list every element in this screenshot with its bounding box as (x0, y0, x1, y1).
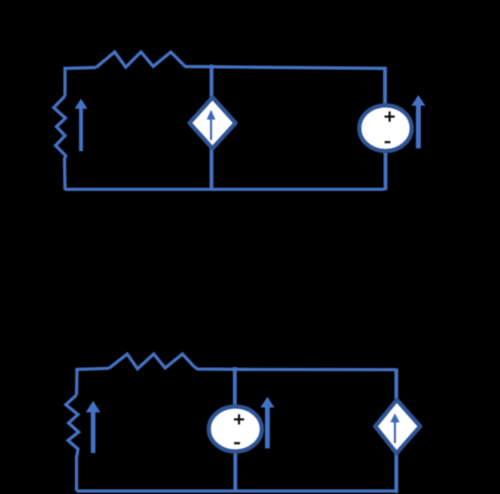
wire: bottom wire of top circuit (65, 188, 385, 191)
wire: top-left horizontal segment (bottom circuit) (77, 368, 109, 372)
arrow: current arrow beside R2 (75, 99, 88, 152)
resistor R3 (horizontal zigzag, bottom circuit) (109, 354, 194, 369)
wire: top-left horizontal segment (65, 68, 96, 71)
wire: top wire from R1 to top-right corner (slight slope) (183, 65, 385, 69)
wire: middle branch above voltage source (bottom circuit) (233, 367, 237, 408)
wire: right branch above diamond (bottom circuit) (394, 369, 398, 402)
arrow: current arrow beside R4 (86, 401, 101, 453)
wire: middle branch below voltage source (bottom circuit) (233, 451, 237, 493)
label: minus sign of V2 (234, 442, 240, 444)
wire: left branch lower segment (bottom circuit) (75, 456, 78, 491)
arrow: current arrow right of V1 (411, 95, 425, 148)
wire: top wire from R3 to top-right corner (bottom circuit) (194, 367, 396, 370)
arrow: current arrow right of V2 (260, 397, 274, 449)
wire: right branch below voltage source (384, 150, 388, 190)
dependent current source D1 (diamond, top circuit) (190, 97, 236, 148)
wire: right branch below diamond (bottom circuit) (394, 453, 398, 494)
wire: left branch upper segment (bottom circuit) (75, 368, 79, 395)
wire: bottom wire of bottom circuit (77, 489, 398, 492)
label: minus sign of V1 (385, 141, 391, 143)
label: plus sign of V1 (385, 112, 395, 122)
label: plus sign of V2 (234, 414, 244, 424)
wire: left branch upper segment (63, 67, 66, 96)
resistor R2 (vertical zigzag, left branch of top circuit) (54, 96, 66, 159)
resistor R4 (vertical zigzag, left branch of bottom circuit) (66, 395, 79, 458)
arrow inside D2 (390, 413, 399, 443)
arrow inside D1 (207, 110, 216, 140)
wire: left branch lower segment (63, 158, 67, 190)
wire: middle branch above diamond (210, 65, 214, 98)
wire: right branch above voltage source (383, 67, 387, 107)
voltage source V2 (circle, bottom circuit) (209, 407, 262, 452)
resistor R1 (horizontal zigzag, top wire of top circuit) (96, 52, 183, 68)
dependent current source D2 (diamond, bottom circuit) (375, 400, 420, 454)
wire: middle branch below diamond (210, 148, 214, 190)
voltage source V1 (circle, top circuit) (359, 105, 411, 151)
